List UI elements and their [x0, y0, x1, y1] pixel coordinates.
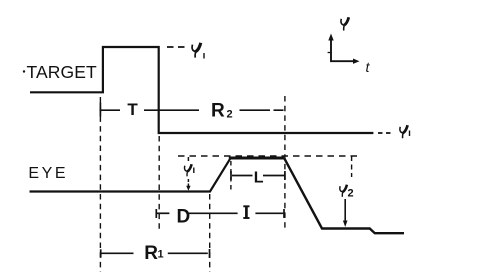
svg-text:2: 2 — [227, 109, 233, 121]
svg-text:D: D — [177, 207, 191, 228]
svg-text:L: L — [254, 169, 264, 186]
svg-text:EYE: EYE — [28, 165, 68, 182]
svg-text:1: 1 — [158, 249, 164, 261]
svg-text:t: t — [366, 59, 371, 75]
svg-text:T: T — [127, 100, 138, 119]
svg-text:R: R — [211, 100, 225, 121]
svg-text:R: R — [144, 243, 158, 264]
svg-text:2: 2 — [348, 188, 354, 200]
svg-text:TARGET: TARGET — [27, 62, 97, 82]
